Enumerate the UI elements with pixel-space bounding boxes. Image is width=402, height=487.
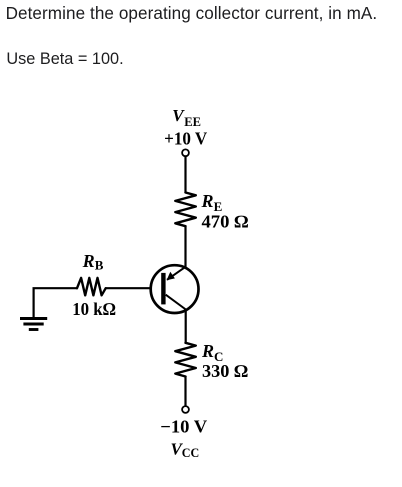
- resistor RC: [175, 343, 196, 377]
- node VEE terminal: [182, 149, 189, 156]
- ground symbol: [20, 317, 47, 320]
- wire RB to ground corner: [34, 288, 77, 317]
- question text line 2: [6, 50, 123, 69]
- svg-text:+10 V: +10 V: [164, 129, 207, 149]
- svg-text:−10 V: −10 V: [160, 416, 207, 436]
- resistor RE: [175, 193, 196, 227]
- transistor Q1 emitter lead with arrow (PNP): [167, 267, 186, 280]
- transistor Q1 base bar: [161, 273, 165, 305]
- wire RE to transistor emitter: [184, 226, 186, 267]
- svg-text:R: R: [201, 191, 214, 211]
- svg-text:CC: CC: [182, 446, 200, 460]
- wire RC to VCC terminal: [184, 377, 186, 407]
- transistor Q1 body circle: [151, 265, 199, 313]
- svg-text:10 kΩ: 10 kΩ: [72, 299, 116, 319]
- svg-text:B: B: [95, 258, 104, 273]
- svg-text:330 Ω: 330 Ω: [202, 361, 248, 381]
- resistor RB: [77, 278, 106, 295]
- wire base to transistor: [106, 287, 151, 289]
- node VCC terminal: [182, 406, 189, 413]
- svg-text:EE: EE: [184, 115, 201, 129]
- svg-text:470 Ω: 470 Ω: [202, 212, 249, 232]
- svg-text:R: R: [201, 341, 214, 361]
- wire transistor collector to RC: [185, 310, 187, 343]
- svg-text:R: R: [82, 251, 95, 271]
- question text line 1: [6, 4, 378, 24]
- wire VEE terminal to RE: [184, 156, 186, 192]
- transistor Q1 collector lead: [166, 295, 186, 310]
